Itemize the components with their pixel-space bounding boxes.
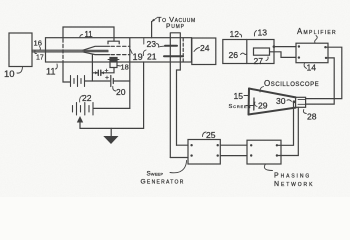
output waveguide box 24 (192, 38, 216, 65)
ground (110, 128, 112, 136)
collector electrode and lead (129, 38, 131, 108)
stem lead to sweep generator lower (170, 157, 188, 159)
tube envelope 11 (46, 38, 192, 62)
output terminal node (273, 45, 276, 48)
pump label arrow (152, 18, 157, 21)
short interior line near pump port (143, 38, 145, 44)
electrode node 30 (293, 100, 296, 103)
waveguide window (dashed) (182, 38, 184, 64)
bypass capacitor wire (92, 68, 114, 73)
sweep generator box (188, 140, 220, 165)
neck plate ticks (298, 99, 306, 104)
sweep generator terminals (190, 144, 192, 146)
amplifier output terminals (324, 46, 326, 48)
wire neck base to phasing network (277, 107, 298, 155)
lead-in stem (chimney) (170, 33, 180, 158)
CRT screen line (253, 98, 255, 110)
wire from tube to ground bus (143, 62, 145, 128)
phasing network box (247, 140, 281, 164)
top terminal loop wire (grid lead to anode bracket lead) (63, 27, 114, 41)
wire amplifier to CRT upper plate (306, 47, 342, 98)
anode cylinder dashed walls (111, 45, 130, 47)
cathode battery (filament battery) (71, 76, 85, 87)
gun support lead down (91, 55, 93, 81)
wire battery to battery 20 (85, 80, 110, 82)
wire node 30 to phasing network (277, 102, 294, 145)
stem lead to sweep generator upper (177, 144, 189, 146)
battery 22 wire (to collector lead corner) (94, 107, 130, 109)
filament middle pair (84, 49, 108, 51)
deflection plate 23 (165, 45, 177, 47)
CRT neck (296, 97, 306, 107)
cathode feed pair into gun (83, 46, 110, 50)
wire 17 (lower lead from box 10) (32, 51, 85, 53)
cavity divider 26 (246, 40, 248, 64)
ground return wire (80, 127, 144, 129)
plus sign (battery 20 polarity upper) (105, 69, 108, 72)
wire crystal to amplifier lower (270, 52, 297, 58)
CRT funnel (oscilloscope tube) (248, 89, 251, 115)
cavity box 12/13 (223, 40, 274, 64)
arrow to battery 22 negative terminal (79, 122, 81, 128)
wire 16 (upper lead from box 10) (32, 49, 85, 51)
vacuum pump port (151, 22, 153, 38)
phasing network terminals (250, 144, 252, 146)
wire cavity to amplifier upper (274, 46, 296, 48)
deflection plate 21 (164, 55, 183, 57)
target crystal 18 (110, 58, 117, 68)
bypass capacitor (98, 70, 101, 75)
amplifier box (296, 43, 328, 63)
wires sweep generator to phasing network (220, 145, 247, 155)
grid lead down to cathode battery (63, 62, 70, 82)
battery 20 (110, 76, 112, 87)
grid (dashed vertical electrode) (62, 39, 64, 62)
oscillator box 10 (9, 33, 32, 67)
amplifier input terminals (298, 45, 300, 47)
anode bracket terminal (108, 41, 119, 44)
plus sign (battery 20) (106, 76, 109, 79)
wire battery 20 to collector lead (113, 80, 130, 82)
crystal slab 27 (254, 48, 270, 55)
wire amplifier to CRT lower plate (306, 58, 335, 104)
battery 22 (73, 103, 94, 116)
